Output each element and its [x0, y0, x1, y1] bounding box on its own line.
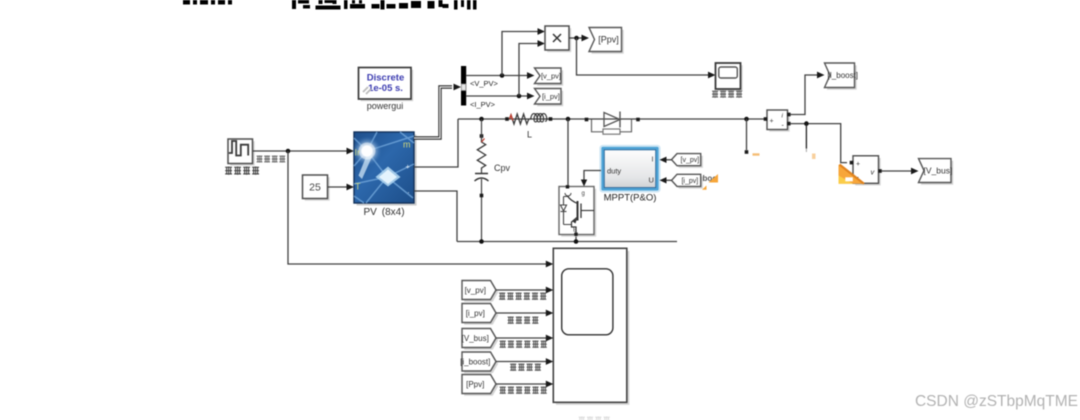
svg-text:[i_pv]: [i_pv]: [466, 309, 485, 318]
wire i out to I_boost tag: [790, 75, 818, 115]
goto tag [Ppv]: [591, 30, 624, 54]
voltage measurement block: [853, 156, 881, 186]
stub wire below rail junction: [746, 119, 748, 150]
svg-text:[v_pv]: [v_pv]: [681, 157, 700, 164]
wire PV- down: [414, 191, 457, 242]
wire v out to V_bus: [881, 170, 912, 172]
svg-text:[v_pv]: [v_pv]: [541, 71, 561, 80]
wire IGBT E to bottom rail: [575, 235, 577, 242]
bus wire (double line) m to bus selector: [414, 87, 452, 138]
label 直流母线电压: [500, 341, 506, 348]
svg-text:<V_PV>: <V_PV>: [470, 79, 499, 88]
svg-text:[V_bus]: [V_bus]: [924, 166, 953, 176]
label 光照强度 under source: [225, 167, 232, 175]
wire I_PV out: [466, 95, 529, 97]
junction Cpv: [479, 117, 484, 122]
signal generator: irradiance source: [228, 139, 255, 166]
faint orange blob: [812, 154, 816, 160]
PV array block: [352, 132, 417, 206]
svg-text:m: m: [403, 140, 411, 150]
svg-text:[V_bus]: [V_bus]: [462, 334, 489, 343]
svg-text:U: U: [649, 176, 654, 185]
wire PV+ to top rail: [414, 119, 458, 167]
from tag [i_pv] to MPPT: [674, 177, 703, 189]
from tag [v_pv]: [464, 283, 498, 302]
svg-text:1e-05 s.: 1e-05 s.: [368, 83, 403, 94]
wire - out to v+: [790, 124, 847, 163]
faint scope label: [579, 417, 585, 420]
wire duty to IGBT gate: [584, 171, 601, 181]
svg-text:MPPT(P&O): MPPT(P&O): [604, 193, 657, 204]
svg-text:Discrete: Discrete: [367, 73, 405, 84]
fading stub below junction: [805, 124, 807, 149]
junction IGBT collector: [566, 117, 571, 122]
svg-text:[v_pv]: [v_pv]: [465, 286, 486, 295]
svg-text:I: I: [652, 157, 654, 164]
current measurement block: [767, 110, 790, 132]
from tag [v_pv] to MPPT: [674, 156, 703, 168]
wire: source to PV Ir: [253, 150, 349, 152]
junction right stub: [744, 117, 749, 122]
scope block: [553, 248, 629, 405]
goto tag [I_boost]: [827, 65, 857, 90]
label 光伏电池电压: [499, 293, 505, 300]
svg-text:g: g: [582, 191, 585, 197]
IGBT block: [559, 185, 596, 237]
bottom rail: [457, 241, 677, 243]
junction on irradiance wire: [286, 149, 291, 154]
svg-text:PV (8x4): PV (8x4): [363, 207, 404, 218]
from tag [i_boost]: [464, 354, 498, 373]
wire label 光照强度: [257, 156, 263, 163]
label 光伏电池功率: [500, 387, 506, 394]
top rail: [458, 118, 765, 120]
Cpv branch: [475, 119, 489, 242]
from tag [Ppv]: [464, 377, 498, 396]
junction on I_PV wire: [517, 94, 522, 99]
power scope block: [716, 63, 743, 91]
goto tag [V_bus]: [921, 161, 954, 185]
goto tag [v_pv]: [537, 70, 564, 86]
diode block: [585, 112, 640, 135]
wire product out: [569, 37, 583, 39]
svg-text:[i_boost]: [i_boost]: [460, 357, 490, 366]
label 光伏电流: [508, 317, 514, 324]
label 功率波形: [712, 91, 718, 98]
svg-text:L: L: [527, 130, 532, 140]
svg-text:+: +: [856, 161, 860, 168]
wire: irradiance down to scope input 1: [288, 151, 546, 264]
svg-text:+: +: [406, 162, 411, 171]
wire V_PV up to product in1: [502, 32, 539, 76]
svg-text:duty: duty: [607, 167, 621, 176]
svg-text:[Ppv]: [Ppv]: [466, 380, 484, 389]
wire rail to IGBT C: [567, 119, 569, 185]
orange artifact wedge: [839, 165, 865, 184]
bus selector bar: [461, 66, 466, 106]
powergui block: [359, 68, 414, 112]
from tag [i_pv]: [464, 306, 498, 325]
svg-text:.: .: [408, 186, 410, 195]
junction on V_PV wire: [500, 73, 505, 78]
MPPT(P&O) controller block: [600, 146, 660, 192]
wire to power scope: [577, 38, 710, 75]
svg-text:[I_boost]: [I_boost]: [827, 71, 858, 80]
from tag [V_bus]: [464, 331, 498, 350]
svg-text:T: T: [355, 182, 361, 192]
svg-text:[i_pv]: [i_pv]: [542, 92, 560, 101]
svg-text:Ir: Ir: [355, 148, 361, 158]
svg-text:<I_PV>: <I_PV>: [470, 100, 496, 109]
heading 4.3.1 (cropped): [183, 0, 232, 5]
wire: constant 25 to PV T: [328, 186, 349, 188]
wire I_PV up to product in2: [519, 44, 539, 97]
series RL branch L: [505, 114, 552, 124]
svg-text:[i_pv]: [i_pv]: [681, 178, 698, 185]
svg-text:powergui: powergui: [367, 101, 404, 111]
svg-text:+: +: [770, 118, 774, 125]
svg-text:25: 25: [309, 182, 321, 194]
wire V_PV out: [466, 75, 529, 77]
product block: [545, 26, 571, 52]
svg-text:[Ppv]: [Ppv]: [598, 35, 619, 45]
label 直流电流: [510, 364, 516, 371]
faint orange dash: [753, 153, 760, 155]
svg-text:Cpv: Cpv: [494, 163, 511, 173]
svg-text:CSDN @zSTbpMqTME: CSDN @zSTbpMqTME: [915, 393, 1078, 410]
constant block 25: [303, 175, 330, 201]
boost text artifact: [702, 174, 718, 190]
goto tag [i_pv]: [537, 91, 564, 107]
